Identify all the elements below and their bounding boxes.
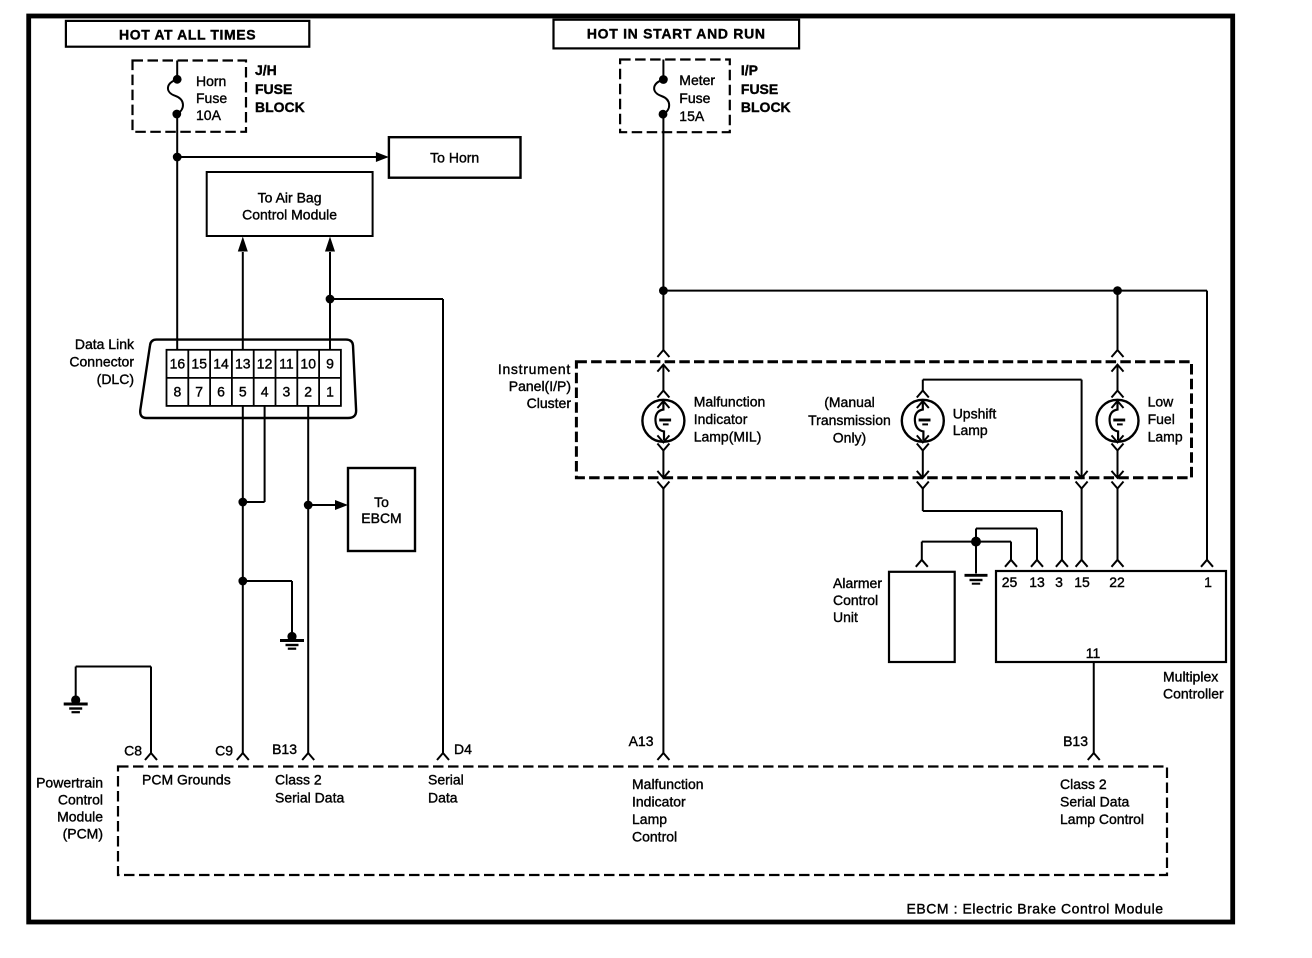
svg-text:7: 7	[195, 384, 203, 400]
svg-text:J/H: J/H	[255, 62, 277, 78]
svg-text:Powertrain: Powertrain	[36, 775, 103, 791]
svg-text:FUSE: FUSE	[741, 81, 778, 97]
svg-text:13: 13	[1029, 574, 1045, 590]
svg-text:Meter: Meter	[679, 72, 715, 88]
svg-text:Controller: Controller	[1163, 686, 1224, 702]
svg-text:Cluster: Cluster	[527, 395, 572, 411]
svg-text:Fuse: Fuse	[679, 90, 710, 106]
svg-text:15: 15	[1074, 574, 1090, 590]
svg-text:2: 2	[304, 384, 312, 400]
svg-text:5: 5	[239, 384, 247, 400]
svg-text:10A: 10A	[196, 107, 222, 123]
svg-text:25: 25	[1002, 574, 1018, 590]
svg-text:(DLC): (DLC)	[97, 371, 134, 387]
svg-text:1: 1	[326, 384, 334, 400]
svg-text:Low: Low	[1148, 394, 1175, 410]
svg-text:Lamp: Lamp	[1148, 429, 1183, 445]
svg-text:Indicator: Indicator	[694, 411, 748, 427]
svg-text:Fuse: Fuse	[196, 90, 227, 106]
svg-text:13: 13	[235, 356, 251, 372]
svg-text:Lamp: Lamp	[632, 811, 667, 827]
svg-text:Fuel: Fuel	[1148, 411, 1175, 427]
svg-text:To Air Bag: To Air Bag	[258, 190, 322, 206]
svg-text:Connector: Connector	[69, 354, 134, 370]
svg-text:Instrument: Instrument	[498, 361, 571, 377]
svg-text:10: 10	[300, 356, 316, 372]
svg-text:Control: Control	[632, 829, 677, 845]
svg-text:22: 22	[1109, 574, 1125, 590]
svg-text:Lamp(MIL): Lamp(MIL)	[694, 429, 762, 445]
svg-text:(PCM): (PCM)	[63, 826, 103, 842]
svg-text:I/P: I/P	[741, 62, 758, 78]
svg-text:C9: C9	[215, 743, 233, 759]
svg-text:(Manual: (Manual	[824, 394, 875, 410]
svg-text:B13: B13	[1063, 733, 1088, 749]
svg-text:Class 2: Class 2	[275, 772, 322, 788]
svg-text:BLOCK: BLOCK	[255, 99, 305, 115]
svg-text:9: 9	[326, 356, 334, 372]
svg-text:Lamp Control: Lamp Control	[1060, 811, 1144, 827]
svg-text:12: 12	[257, 356, 273, 372]
svg-text:Module: Module	[57, 809, 103, 825]
svg-text:14: 14	[213, 356, 229, 372]
svg-text:Data: Data	[428, 790, 458, 806]
svg-text:3: 3	[283, 384, 291, 400]
svg-text:1: 1	[1204, 574, 1212, 590]
svg-text:A13: A13	[629, 733, 654, 749]
svg-text:To: To	[374, 494, 389, 510]
svg-text:Control: Control	[833, 592, 878, 608]
svg-text:Control: Control	[58, 792, 103, 808]
svg-text:Only): Only)	[833, 430, 866, 446]
svg-text:Control Module: Control Module	[242, 207, 337, 223]
svg-text:Malfunction: Malfunction	[632, 776, 704, 792]
svg-text:To Horn: To Horn	[430, 150, 479, 166]
svg-text:C8: C8	[124, 743, 142, 759]
svg-text:15A: 15A	[679, 108, 705, 124]
svg-text:Indicator: Indicator	[632, 794, 686, 810]
svg-text:EBCM: EBCM	[361, 510, 401, 526]
svg-text:Lamp: Lamp	[953, 422, 988, 438]
svg-text:6: 6	[217, 384, 225, 400]
svg-text:3: 3	[1055, 574, 1063, 590]
svg-text:Transmission: Transmission	[808, 412, 891, 428]
svg-text:Serial Data: Serial Data	[1060, 794, 1129, 810]
svg-text:Serial: Serial	[428, 772, 464, 788]
svg-text:8: 8	[174, 384, 182, 400]
svg-text:11: 11	[279, 356, 294, 372]
svg-text:FUSE: FUSE	[255, 81, 292, 97]
svg-text:D4: D4	[454, 741, 472, 757]
svg-text:EBCM : Electric Brake Control: EBCM : Electric Brake Control Module	[907, 901, 1164, 917]
svg-text:4: 4	[261, 384, 269, 400]
svg-text:11: 11	[1086, 645, 1101, 661]
svg-text:PCM Grounds: PCM Grounds	[142, 772, 231, 788]
svg-text:Unit: Unit	[833, 609, 858, 625]
svg-text:Horn: Horn	[196, 73, 226, 89]
svg-text:Serial Data: Serial Data	[275, 790, 344, 806]
svg-text:Upshift: Upshift	[953, 406, 997, 422]
svg-text:Malfunction: Malfunction	[694, 394, 766, 410]
svg-text:16: 16	[170, 356, 186, 372]
svg-text:B13: B13	[272, 741, 297, 757]
svg-text:15: 15	[191, 356, 207, 372]
svg-text:Data Link: Data Link	[75, 336, 135, 352]
svg-text:Class 2: Class 2	[1060, 776, 1107, 792]
svg-text:HOT IN START AND RUN: HOT IN START AND RUN	[587, 26, 766, 42]
svg-text:HOT AT ALL TIMES: HOT AT ALL TIMES	[119, 27, 256, 43]
svg-text:Alarmer: Alarmer	[833, 575, 882, 591]
svg-text:Multiplex: Multiplex	[1163, 669, 1218, 685]
svg-text:Panel(I/P): Panel(I/P)	[509, 378, 571, 394]
svg-text:BLOCK: BLOCK	[741, 99, 791, 115]
